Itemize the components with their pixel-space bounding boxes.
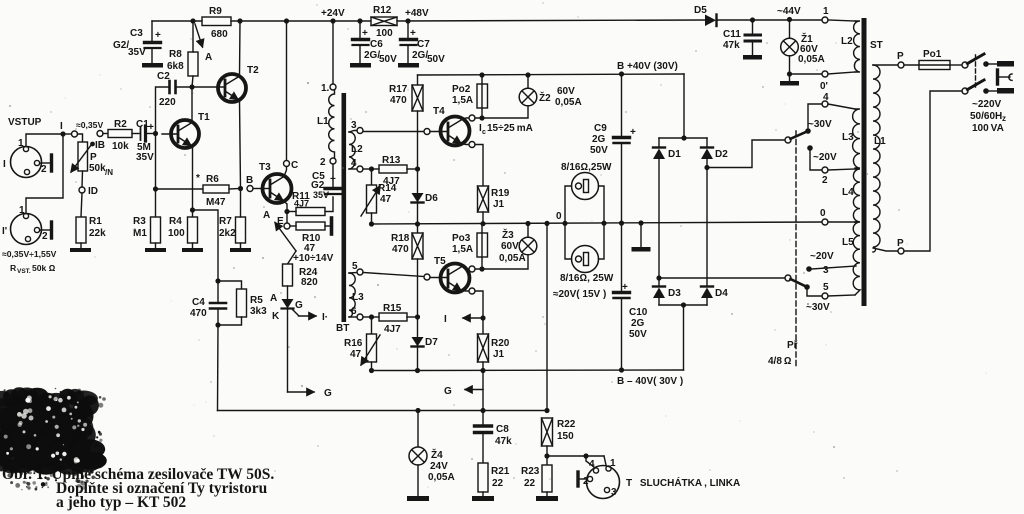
wire R4 ground lead — [192, 243, 194, 248]
svg-text:R6: R6 — [206, 174, 219, 185]
svg-text:3: 3 — [823, 265, 829, 276]
transistor T1 — [162, 120, 199, 148]
diode D6 — [412, 169, 424, 224]
terminal 5 of BT — [357, 269, 363, 275]
resistor R4 100 — [188, 217, 198, 243]
wire tap 2 to winding — [828, 169, 855, 170]
wire T4 emitter to terminal — [461, 144, 469, 145]
svg-text:L3: L3 — [352, 292, 364, 303]
wire R6 to node B — [229, 188, 240, 191]
svg-text:D3: D3 — [668, 288, 681, 299]
svg-text:T4: T4 — [433, 106, 445, 117]
wire bottom rail — [218, 410, 548, 412]
wire P bottom return to switch lower pole — [904, 91, 962, 251]
diode D7 — [412, 317, 424, 371]
svg-text:R17: R17 — [389, 84, 408, 95]
svg-text:2: 2 — [583, 476, 589, 487]
resistor R1 22k — [76, 217, 86, 243]
fuse Po3 1,5A — [477, 224, 488, 269]
node BT L1 pin1 on rail — [330, 18, 335, 23]
terminal tap 0 — [822, 219, 828, 225]
terminal tap 1 — [822, 17, 828, 23]
svg-text:~220V: ~220V — [972, 99, 1002, 110]
contact dot lower pole — [983, 88, 989, 94]
svg-text:P: P — [897, 51, 904, 62]
hook wire from break to potentiometer top — [78, 134, 83, 142]
svg-text:a jeho typ – KT 502: a jeho typ – KT 502 — [56, 494, 186, 511]
svg-text:Ž2: Ž2 — [539, 91, 551, 104]
node T1 collector / T2 base / R8 / C2 — [189, 84, 194, 89]
svg-text:ST: ST — [870, 40, 883, 51]
node Po3 bottom / Z3 return — [479, 266, 484, 271]
svg-text:L4: L4 — [842, 187, 854, 198]
svg-text:R2: R2 — [114, 119, 127, 130]
svg-text:22: 22 — [524, 478, 536, 489]
DIN pin2 stub — [578, 472, 587, 486]
contact dot 30V upper — [805, 128, 811, 134]
svg-text:0: 0 — [556, 211, 562, 222]
resistor R24 820 — [283, 264, 293, 286]
node C9/C10 — [619, 221, 624, 226]
ground C3 — [142, 63, 163, 68]
transistor T5 — [430, 264, 470, 293]
wire node I to jack break — [66, 133, 71, 135]
winding L5 of ST — [853, 222, 860, 295]
svg-text:6: 6 — [351, 306, 357, 317]
wire R13 right to node — [407, 168, 417, 170]
dashed gang line mains switch — [975, 55, 977, 90]
terminal tap 4 — [822, 101, 828, 107]
wire T5 collector to terminal — [462, 267, 469, 270]
svg-text:R14: R14 — [378, 183, 397, 194]
capacitor C2 220 — [170, 81, 176, 93]
svg-text:22: 22 — [492, 478, 504, 489]
svg-text:+: + — [410, 28, 416, 39]
diode D2 — [701, 138, 713, 167]
capacitor C11 47k — [745, 20, 761, 55]
svg-text:47: 47 — [350, 349, 362, 360]
transistor T4 — [430, 117, 470, 146]
winding L1 of BT — [329, 90, 335, 158]
svg-text:B – 40V( 30V ): B – 40V( 30V ) — [617, 376, 683, 387]
svg-text:1: 1 — [823, 6, 829, 17]
smudge texture holes (decorative) — [4, 395, 87, 463]
svg-text:50V: 50V — [379, 54, 397, 65]
svg-text:1: 1 — [19, 205, 25, 216]
wire tap1 to L2 — [828, 20, 855, 21]
wire T1 base vertical down to R3 — [155, 134, 157, 218]
wire B+40V rail — [418, 74, 685, 75]
terminal circle C — [284, 161, 290, 167]
svg-text:2: 2 — [41, 164, 47, 175]
speaker bottom 8/16ohm 25W — [565, 223, 604, 272]
wire ID to R1 — [81, 193, 82, 217]
svg-text:R8: R8 — [169, 49, 182, 60]
node C7 / R12 right — [405, 18, 410, 23]
svg-text:L3: L3 — [842, 132, 854, 143]
node R22 feed — [544, 221, 549, 226]
svg-text:R20: R20 — [491, 338, 510, 349]
svg-text:4: 4 — [589, 459, 595, 470]
node speaker left — [562, 221, 567, 226]
wire tap 3 to winding — [812, 266, 856, 269]
node bridge bottom — [681, 302, 686, 307]
svg-text:J1: J1 — [493, 349, 505, 360]
thyristor Ty KT502 — [282, 299, 299, 392]
svg-text:0,05A: 0,05A — [499, 253, 526, 264]
speaker top 8/16ohm 25W — [565, 173, 604, 224]
node I tap — [480, 315, 485, 320]
node R9 left / R8 top — [190, 18, 195, 23]
resistor R2 10k — [108, 130, 132, 138]
wire rail R12 to D5 — [397, 20, 706, 21]
wire L2 top to terminal 3 — [349, 131, 357, 133]
svg-text:G: G — [444, 386, 452, 397]
svg-text:Po1: Po1 — [923, 49, 942, 60]
svg-text:470: 470 — [390, 95, 407, 106]
svg-text:L2: L2 — [351, 144, 363, 155]
node Z1 bottom / 0' tap wire — [787, 71, 792, 76]
wire R15 right to node — [407, 316, 417, 318]
ground Z4 — [407, 496, 429, 501]
wire tap 0 to winding — [828, 221, 855, 223]
svg-text:100: 100 — [376, 28, 393, 39]
svg-text:R7: R7 — [219, 216, 232, 227]
wire terminal 4 to R13 node — [363, 168, 371, 170]
svg-text:50V: 50V — [427, 54, 445, 65]
dashed gang line Pr — [795, 131, 797, 368]
wire L1 bottom to terminal P bottom — [873, 248, 898, 251]
wire R7 top lead — [240, 189, 242, 218]
resistor R23 22 — [542, 456, 552, 496]
svg-text:35V: 35V — [136, 152, 154, 163]
svg-text:*: * — [196, 173, 200, 184]
switch arm lower tap selector — [785, 275, 806, 287]
node R14 bottom — [369, 221, 374, 226]
resistor R3 M1 — [151, 217, 161, 243]
svg-text:Ž3: Ž3 — [502, 228, 514, 241]
wire P to fuse Po1 — [904, 64, 919, 66]
svg-text:P: P — [90, 152, 97, 163]
wire rail D5 to tap1 — [718, 19, 822, 21]
svg-text:4J7: 4J7 — [384, 324, 401, 335]
svg-text:C9: C9 — [594, 123, 607, 134]
ink smudge blob (decorative scan artifact) — [0, 387, 107, 493]
node C11 — [750, 17, 755, 22]
node Z4 — [415, 408, 420, 413]
resistor R18 470 (fusible) — [412, 224, 423, 317]
winding L4 of ST — [853, 169, 860, 222]
wire I arrow — [463, 317, 483, 319]
core ST — [862, 18, 867, 306]
svg-text:~20V: ~20V — [810, 251, 834, 262]
wire T4 collector to terminal — [462, 118, 469, 120]
svg-text:470: 470 — [190, 308, 207, 319]
wire R13 left lead — [372, 168, 380, 170]
svg-text:1: 1 — [610, 458, 616, 469]
winding L2 of BT — [349, 132, 355, 169]
ground R21 — [472, 496, 494, 501]
diode D1 — [653, 138, 665, 278]
node T1 base — [153, 131, 158, 136]
svg-text:1.: 1. — [321, 83, 330, 94]
svg-text:R4: R4 — [169, 216, 182, 227]
wire L1 top to terminal P — [873, 64, 898, 66]
svg-text:R1: R1 — [89, 216, 102, 227]
resistor R17 470 (fusible) — [412, 75, 423, 169]
svg-text:+: + — [362, 28, 368, 39]
wire T3 collector up to +24V — [284, 21, 287, 177]
wire L3 top to terminal 5 — [349, 272, 357, 275]
svg-text:8/16Ω,25W: 8/16Ω,25W — [561, 162, 612, 173]
wire rail extension to R16 — [372, 370, 418, 372]
wire R8 top to +24V rail — [192, 21, 194, 52]
wire K down corner to G arrow — [288, 391, 315, 393]
svg-text:6k8: 6k8 — [167, 61, 184, 72]
resistor R7 2k2 — [236, 217, 246, 243]
svg-text:≈0,35V: ≈0,35V — [76, 120, 103, 130]
wire B to T3 base — [253, 188, 263, 190]
terminal circle B — [247, 186, 253, 192]
wire 0 rail — [372, 222, 823, 224]
svg-text:D6: D6 — [425, 193, 438, 204]
svg-text:C11: C11 — [723, 29, 741, 40]
fuse Po1 — [919, 61, 950, 70]
svg-text:R5: R5 — [250, 295, 263, 306]
wire G arrow — [465, 389, 483, 391]
svg-text:A: A — [270, 293, 277, 304]
mains switch pole upper — [962, 54, 984, 68]
capacitor C6 2G/50V electrolytic — [353, 21, 369, 63]
terminal tap 5 circle — [822, 293, 828, 299]
wire R11 right to C5 — [325, 197, 333, 212]
svg-text:C8: C8 — [496, 424, 509, 435]
wire 20V contact to tap 2 — [810, 148, 822, 170]
wire rail R9 to R12 — [231, 20, 371, 22]
svg-text:2: 2 — [320, 157, 326, 168]
terminal 3 of BT — [357, 128, 363, 134]
svg-text:R16: R16 — [344, 338, 363, 349]
svg-text:1,5A: 1,5A — [452, 95, 473, 106]
svg-text:3: 3 — [611, 487, 617, 498]
resistor R5 3k3 (parallel) — [218, 281, 247, 325]
contact dot 20V lower (tap 3) — [806, 266, 812, 272]
svg-text:50k Ω: 50k Ω — [32, 263, 56, 273]
svg-text:+: + — [148, 122, 154, 133]
wire A zigzag to R24 — [275, 223, 296, 252]
ground Z1 — [780, 81, 799, 86]
wire gate to I arrow — [299, 315, 317, 317]
wire terminal 6 to R15 node — [363, 316, 371, 318]
wire bridge bottom rail — [659, 304, 707, 306]
wire C4 down to bottom rail — [217, 325, 220, 411]
terminal 4 of BT — [357, 166, 363, 172]
capacitor C3 G2/35V electrolytic — [145, 21, 161, 63]
wire R8 bottom to node — [192, 76, 193, 87]
svg-text:D5: D5 — [694, 5, 707, 16]
wire C1 to T1 base node — [148, 133, 156, 135]
winding L1 primary of ST — [873, 65, 880, 252]
node R16 bottom — [369, 368, 374, 373]
svg-text:BT: BT — [336, 323, 349, 334]
node C4/R5 bottom — [215, 322, 220, 327]
wire T1 emitter tap to C4 branch — [193, 210, 219, 281]
resistor R10 47 — [296, 222, 325, 230]
terminal 2 of BT L1 — [330, 158, 336, 164]
svg-text:K: K — [272, 311, 280, 322]
wire T5 emitter down — [475, 291, 483, 318]
node D6 bottom — [415, 221, 420, 226]
wire 0' tap to Z1 — [790, 73, 823, 75]
connector I (DIN socket) — [11, 146, 42, 177]
wire L3 bottom to terminal 6 — [349, 316, 357, 318]
wire D2 down to D4 — [706, 168, 708, 287]
svg-text:60V: 60V — [501, 241, 519, 252]
svg-text:2: 2 — [822, 175, 828, 186]
svg-text:+10÷14V: +10÷14V — [293, 253, 334, 264]
resistor R11 4J7 — [296, 208, 325, 216]
node R22/R23 headphone tap — [544, 453, 549, 458]
wire R11 left lead — [290, 211, 296, 213]
svg-text:24V: 24V — [430, 461, 448, 472]
node Z3 top — [525, 221, 530, 226]
svg-text:T5: T5 — [434, 256, 446, 267]
node lamp Z1 — [787, 17, 792, 22]
svg-text:~30V: ~30V — [808, 119, 832, 130]
svg-text:50/60H: 50/60H — [970, 111, 1002, 122]
svg-text:B: B — [246, 175, 253, 186]
svg-text:z: z — [1002, 114, 1006, 123]
wire T3 emitter down — [283, 201, 287, 224]
capacitor C8 47k — [475, 411, 492, 464]
connector I pin2 stub — [40, 155, 52, 171]
ground C7 — [398, 63, 419, 68]
diode D3 — [653, 278, 665, 305]
svg-text:150: 150 — [557, 431, 574, 442]
svg-text:3k3: 3k3 — [250, 306, 267, 317]
node R6 left junction — [153, 186, 158, 191]
svg-text:I: I — [444, 314, 447, 325]
svg-text:L1: L1 — [874, 136, 886, 147]
wire R21 ground lead — [482, 492, 484, 496]
svg-text:100: 100 — [168, 228, 185, 239]
contact dot 20V upper — [807, 145, 813, 151]
svg-text:M47: M47 — [206, 197, 226, 208]
svg-text:R15: R15 — [383, 303, 402, 314]
svg-text:1,5A: 1,5A — [452, 244, 473, 255]
svg-text:A: A — [263, 210, 270, 221]
svg-text:D1: D1 — [668, 149, 681, 160]
diode D5 — [705, 15, 717, 27]
wire T2 collector to +24V rail — [239, 21, 242, 77]
terminal P bottom — [898, 248, 904, 254]
svg-text:47k: 47k — [723, 40, 740, 51]
wire to plug prong upper — [986, 63, 997, 65]
node speaker right — [601, 221, 606, 226]
svg-text:R21: R21 — [491, 466, 510, 477]
svg-text:+: + — [622, 282, 628, 293]
ground R7 — [230, 248, 251, 252]
wire bridge top rail — [659, 137, 707, 139]
wire C2 left drop — [156, 87, 169, 134]
svg-text:T SLUCHÁTKA , LINKA: T SLUCHÁTKA , LINKA — [626, 476, 740, 489]
svg-text:R23: R23 — [521, 466, 540, 477]
svg-text:B +40V (30V): B +40V (30V) — [617, 61, 678, 72]
core BT — [342, 93, 347, 322]
wire B+40V corner down to bridge — [683, 74, 685, 138]
resistor R9 680 — [202, 17, 231, 26]
wire T2 emitter down to node B — [240, 100, 241, 189]
annotation arrow A — [195, 24, 203, 47]
svg-text:R13: R13 — [382, 155, 401, 166]
node R19/Po3 — [480, 221, 485, 226]
svg-text:L2: L2 — [841, 36, 853, 47]
wire rail ground lead — [640, 223, 642, 247]
svg-text:C3: C3 — [130, 28, 143, 39]
terminal circle (break left) — [72, 131, 78, 137]
svg-text:T2: T2 — [247, 65, 259, 76]
node T2 collector on rail — [237, 18, 242, 23]
svg-text:47k: 47k — [495, 436, 512, 447]
wire tap to DIN pins — [547, 455, 604, 457]
svg-text:c: c — [482, 129, 486, 136]
wire R6 from T1 base line — [156, 188, 204, 190]
node R15 / R16 junction — [369, 314, 374, 319]
ground R1 — [70, 248, 91, 252]
wire node to T2 base — [192, 86, 225, 88]
wire T5 emitter to terminal — [461, 290, 469, 293]
capacitor C9 2G 50V electrolytic — [614, 74, 630, 223]
wire break to R2 — [103, 133, 108, 135]
svg-text:I': I' — [2, 226, 7, 237]
connector I' pin2 stub — [40, 222, 52, 238]
terminal T5 emitter — [469, 288, 475, 294]
switch arm upper tap selector — [785, 132, 807, 144]
wire from terminal 3 to T4 base — [363, 131, 424, 133]
svg-text:~30V: ~30V — [806, 302, 830, 313]
ground R23 — [536, 496, 558, 501]
contact dot 30V lower (tap 5) — [804, 284, 810, 290]
svg-text:5: 5 — [352, 261, 358, 272]
wire tap 4 to 30V contact — [808, 104, 822, 128]
svg-text:Po3: Po3 — [452, 233, 471, 244]
terminal T4 collector — [469, 115, 475, 121]
svg-text:R22: R22 — [557, 419, 576, 430]
DIN socket T SLUCHATKA — [587, 466, 620, 499]
svg-text:G: G — [324, 388, 332, 399]
svg-text:VSTUP: VSTUP — [8, 117, 42, 128]
lamp Z2 60V 0,05A — [475, 75, 537, 118]
svg-text:L1: L1 — [317, 116, 329, 127]
diode D4 — [701, 287, 713, 306]
terminal T4 base — [424, 129, 430, 135]
svg-text:2k2: 2k2 — [219, 228, 236, 239]
node T3 collector on rail — [284, 18, 289, 23]
svg-text:+: + — [330, 174, 336, 185]
plug prong lower — [997, 88, 1014, 94]
svg-text:I·: I· — [322, 312, 328, 323]
terminal circle (break right) — [97, 131, 103, 137]
svg-text:R9: R9 — [209, 6, 222, 17]
svg-text:+: + — [630, 127, 636, 138]
svg-text:≈0,35V÷1,55V: ≈0,35V÷1,55V — [2, 249, 57, 259]
svg-text:C2: C2 — [157, 71, 170, 82]
wire to pin 1 — [604, 456, 606, 465]
terminal 1 of BT L1 — [330, 84, 336, 90]
transistor T2 — [218, 74, 246, 102]
node Po2 bottom / Z2 return — [479, 115, 484, 120]
svg-text:2G: 2G — [592, 134, 606, 145]
